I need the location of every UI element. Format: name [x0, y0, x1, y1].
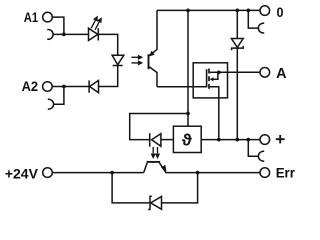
- label +24V: [5, 166, 38, 181]
- wire A2 junction to socket: [53, 87, 64, 105]
- wire A1 socket row to LED D1: [53, 33, 89, 35]
- node drain: [217, 70, 221, 74]
- label A1: [24, 10, 39, 25]
- D2 coupling arrows: [131, 55, 143, 66]
- label Err: [276, 166, 296, 181]
- node Err riser: [196, 171, 200, 175]
- LED D2 (optocoupler input): [112, 55, 124, 65]
- wire A1 to junction: [52, 17, 64, 34]
- MOSFET source tap: [210, 87, 219, 140]
- MOSFET body tap with arrow: [210, 72, 218, 81]
- wire plus socket elbow: [248, 140, 259, 157]
- label A2: [22, 79, 39, 94]
- wire thermal box to plus bus: [201, 139, 260, 141]
- svg-text:A: A: [276, 66, 287, 82]
- label plus: [276, 135, 285, 143]
- LED D1: [89, 28, 99, 40]
- socket plus: [258, 151, 264, 161]
- node socket plus: [246, 138, 250, 142]
- Q2 collector: [144, 163, 148, 173]
- socket 0: [258, 23, 264, 33]
- wire D1 to D2: [98, 34, 117, 55]
- terminal 0: [260, 6, 270, 16]
- wire 0 socket elbow: [248, 10, 259, 28]
- wire D5 to thermal box: [161, 139, 174, 141]
- label A: [276, 66, 287, 82]
- node +24V branch: [110, 171, 114, 175]
- top bus 0: [157, 9, 260, 11]
- diode D3: [89, 80, 98, 92]
- wire gate drive vertical: [187, 10, 189, 126]
- terminal A1: [43, 12, 53, 22]
- node A2 junction: [62, 85, 66, 89]
- label 0: [277, 4, 284, 20]
- wire D2 to D3: [99, 66, 118, 87]
- svg-text:A1: A1: [24, 10, 39, 25]
- wire lower branch: [112, 173, 149, 203]
- terminal +24V: [43, 168, 53, 178]
- terminal plus: [260, 135, 270, 145]
- thermal sensor box: [173, 126, 201, 152]
- D5 emission arrows: [151, 147, 161, 159]
- wire D3 to A2: [52, 86, 89, 88]
- svg-text:0: 0: [277, 4, 284, 20]
- zener diode D4: [231, 10, 243, 139]
- node bus theta: [186, 9, 190, 13]
- node diode plus: [235, 138, 239, 142]
- svg-text:A2: A2: [22, 79, 39, 94]
- node theta branch: [186, 112, 190, 116]
- MOSFET gate bar: [206, 69, 208, 87]
- MOSFET drain tap: [210, 71, 219, 73]
- Q2 emitter with arrow: [159, 163, 260, 173]
- phototransistor Q2 base bar: [147, 161, 161, 163]
- wire LED D5 loop: [130, 114, 188, 140]
- MOSFET channel segments: [208, 69, 210, 89]
- svg-text:+24V: +24V: [5, 166, 38, 181]
- LED D1 emission arrows: [91, 16, 102, 30]
- node bus diode: [235, 9, 239, 13]
- svg-text:ϑ: ϑ: [182, 130, 192, 149]
- wire D6 to Err riser: [162, 173, 198, 203]
- terminal A: [260, 68, 270, 78]
- terminal Err: [260, 168, 270, 178]
- node bus socket: [246, 9, 250, 13]
- wire drain to terminal A: [219, 71, 260, 73]
- LED D5 (status): [150, 133, 161, 147]
- socket A2: [48, 99, 54, 109]
- wire +24V row: [52, 172, 143, 174]
- wire Q1 collector to MOSFET gate: [157, 86, 207, 88]
- theta glyph: [182, 130, 192, 149]
- zener diode D6: [148, 196, 161, 209]
- socket A1: [47, 30, 53, 40]
- node source plus: [217, 138, 221, 142]
- phototransistor Q1 base bar: [148, 54, 150, 69]
- node A1 junction: [62, 33, 66, 37]
- Q1 emitter with arrow: [149, 10, 158, 56]
- svg-text:Err: Err: [276, 166, 296, 181]
- Q1 collector: [149, 67, 157, 87]
- terminal A2: [43, 82, 53, 92]
- MOSFET box U1: [193, 63, 227, 98]
